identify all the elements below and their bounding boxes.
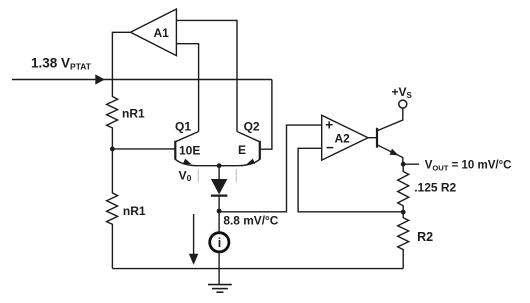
label 1.38 VPTAT (31, 55, 92, 71)
svg-text:E: E (238, 143, 246, 157)
node: VOUT dot (401, 162, 406, 167)
ground (208, 285, 232, 293)
svg-text:−: − (326, 140, 334, 155)
svg-text:+: + (325, 118, 333, 133)
wire: node to A2 plus input (219, 125, 322, 212)
svg-text:Q1: Q1 (175, 119, 191, 133)
node: feedback junction dot (401, 210, 406, 215)
svg-text:.125 R2: .125 R2 (414, 180, 456, 194)
node: 8.8mV node dot (217, 209, 222, 214)
stub grey line right (235, 169, 237, 183)
svg-text:A1: A1 (154, 26, 170, 40)
op-amp A2 (322, 115, 368, 160)
svg-text:10E: 10E (179, 143, 200, 157)
node: common emitter dot (217, 163, 222, 168)
transistor Q3 (377, 108, 403, 164)
wire: 1.38 VPTAT input line (12, 79, 272, 81)
wire: feedback to A2 minus input (298, 148, 403, 212)
label VOUT = 10 mV/degC (425, 160, 512, 173)
current source i (210, 211, 229, 285)
transistor Q2 (237, 119, 260, 165)
wire: A1 lower input to Q1 collector (176, 44, 198, 132)
svg-text:Q2: Q2 (244, 119, 260, 133)
wire: A1 upper input to Q2 collector (176, 20, 237, 131)
wire: common emitter rail (198, 165, 238, 167)
diode (emitter-base junction) (211, 166, 228, 211)
wire: node to Q2 base (right vertical) (260, 80, 272, 150)
label V0 (179, 168, 192, 183)
resistor nR1 (lower) (107, 149, 146, 269)
wire: VOUT stub (403, 163, 419, 165)
resistor .125 R2 (398, 164, 457, 212)
label 8.8 mV/degC (223, 214, 278, 228)
wire: A2 output to Q3 base (368, 137, 377, 139)
current direction arrow (189, 214, 198, 265)
wire: A1 output to input node (112, 32, 130, 79)
input arrowhead (95, 74, 105, 84)
transistor Q1 (175, 119, 200, 165)
wire: Q1 base (112, 148, 175, 150)
wire: bottom ground rail (112, 268, 403, 270)
svg-text:R2: R2 (417, 230, 433, 244)
node: junction at nR1 midpoint (Q1 base node) (110, 147, 115, 152)
svg-text:A2: A2 (335, 131, 351, 145)
resistor R2 (398, 212, 433, 269)
svg-text:i: i (218, 236, 221, 250)
resistor nR1 (upper) (107, 80, 145, 149)
svg-text:nR1: nR1 (122, 107, 145, 121)
svg-text:8.8 mV/°C: 8.8 mV/°C (223, 214, 278, 228)
svg-text:nR1: nR1 (123, 204, 146, 218)
+VS supply terminal (392, 85, 413, 108)
stub grey line left (197, 169, 199, 183)
op-amp A1 (131, 9, 177, 56)
